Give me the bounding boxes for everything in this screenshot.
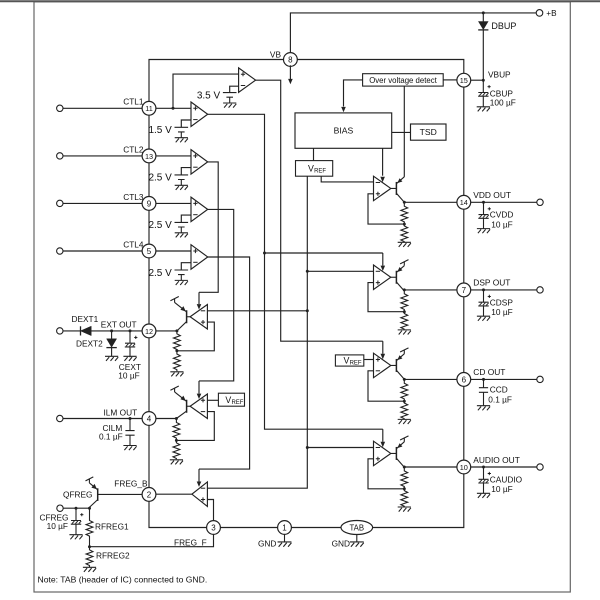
node AUDIO feedback tap [403, 487, 406, 490]
svg-text:V: V [225, 395, 231, 405]
wire CTL3 comparator output bus [199, 209, 234, 380]
svg-text:CCD: CCD [490, 385, 508, 395]
wire BIAS to VDD op-amp arrow [382, 148, 384, 175]
wire ILM OUT external [63, 418, 142, 420]
wire AUDIO output to pin [404, 466, 457, 468]
transistor QFREG [86, 477, 143, 508]
junction CDSP [482, 288, 485, 291]
svg-text:CDSP: CDSP [490, 297, 514, 307]
wire ILM feedback hook [176, 412, 214, 441]
transistor ILM [170, 386, 190, 418]
block BIAS [295, 113, 392, 148]
wire CTL1 bus branch to DSP arrow [265, 252, 383, 254]
pin 14 VDD OUT [457, 195, 471, 209]
node EXT feedback tap [175, 349, 178, 352]
ground VDD divider [398, 242, 411, 247]
wire VREF bus to DSP op-amp [307, 270, 373, 272]
svg-text:FREG_B: FREG_B [114, 479, 148, 489]
svg-text:Note: TAB (header of IC) conne: Note: TAB (header of IC) connected to GN… [38, 575, 208, 585]
battery reference 1.5 V for CTL1 [175, 127, 189, 137]
diode DEXT2 [106, 331, 116, 356]
ground CEXT [123, 356, 136, 361]
terminal AUDIO OUT [537, 464, 543, 470]
pin 13 CTL2 [142, 149, 156, 163]
wire CTL4 comparator output bus [199, 257, 250, 469]
svg-text:10 µF: 10 µF [47, 521, 68, 531]
capacitor CCD [479, 388, 488, 393]
svg-text:QFREG: QFREG [63, 489, 93, 499]
wire TAB ground stub [356, 535, 358, 542]
svg-text:VB: VB [270, 49, 282, 59]
svg-text:0.1 µF: 0.1 µF [99, 432, 123, 442]
terminal CTL4 [57, 248, 63, 254]
svg-text:TAB: TAB [350, 523, 365, 532]
pin 11 CTL1 [142, 101, 156, 115]
ground AUDIO divider [398, 507, 411, 512]
svg-text:CTL2: CTL2 [123, 144, 144, 154]
wire pin 4 to ILM node [156, 418, 176, 420]
junction CEXT [129, 329, 132, 332]
wire CTL2 pin to comparator [156, 155, 191, 157]
svg-text:CD OUT: CD OUT [473, 367, 505, 377]
pin 2 FREG_B [142, 488, 156, 502]
node DSP feedback tap [403, 310, 406, 313]
svg-text:CTL1: CTL1 [123, 97, 144, 107]
resistor AUDIO feedback upper [401, 467, 408, 489]
capacitor CVDD [478, 202, 491, 228]
block VREF main [296, 161, 333, 177]
terminal CTL1 [57, 105, 63, 111]
arrowhead into AUDIO op-amp [381, 442, 386, 447]
wire VDD output to pin [404, 201, 457, 203]
capacitor CILM plates [125, 431, 134, 436]
wire DSP OUT to terminal [471, 289, 537, 291]
wire DSP output to pin [404, 289, 457, 291]
wire CD output to pin [404, 378, 457, 380]
ground CVDD [477, 229, 490, 234]
node CD feedback tap [403, 400, 406, 403]
diode DBUP [478, 13, 488, 80]
svg-text:8: 8 [288, 55, 293, 64]
page border top thick edge [0, 0, 600, 2]
junction VREF bus to EXT [306, 309, 309, 312]
battery reference 2.5 V for CTL3 [175, 222, 189, 232]
ground CD divider [398, 419, 411, 424]
capacitor CBUP [478, 80, 491, 106]
svg-text:REF: REF [314, 169, 326, 175]
svg-text:2: 2 [147, 490, 152, 499]
junction CFREG [75, 507, 78, 510]
resistor RFREG1 [86, 508, 93, 547]
junction VREF bus to DSP [306, 270, 309, 273]
svg-text:AUDIO OUT: AUDIO OUT [473, 455, 520, 465]
comparator CTL4 [191, 245, 208, 270]
svg-text:14: 14 [460, 198, 468, 207]
op-amp EXT [190, 305, 207, 330]
node VDD output [403, 201, 406, 204]
wire CTL2 comparator output bus [199, 162, 218, 292]
wire CD OUT to terminal [471, 378, 537, 380]
svg-text:6: 6 [462, 375, 467, 384]
pin 1 GND [278, 521, 292, 535]
wire FREG plus hook to pin 3 [207, 500, 213, 521]
wire input CTL2 [63, 155, 142, 157]
junction DEXT2 [110, 329, 113, 332]
svg-text:10 µF: 10 µF [118, 371, 139, 381]
svg-text:V: V [343, 356, 349, 366]
block VREF ILM [218, 393, 244, 406]
svg-text:DEXT1: DEXT1 [72, 314, 99, 324]
svg-text:7: 7 [462, 286, 467, 295]
svg-text:VDD OUT: VDD OUT [473, 190, 511, 200]
svg-text:TSD: TSD [420, 127, 437, 137]
ground ILM divider [170, 460, 183, 465]
pin 4 ILM OUT [142, 412, 156, 426]
svg-text:CAUDIO: CAUDIO [490, 474, 523, 484]
ground DEXT2 [105, 356, 118, 361]
wire EXT OUT external [63, 330, 142, 332]
arrowhead into FREG op-amp [197, 482, 202, 487]
net VREF bus [207, 176, 307, 488]
IC package outline [149, 60, 464, 528]
arrowhead into EXT op-amp [197, 304, 202, 309]
node VDD feedback tap [403, 223, 406, 226]
junction CVDD [482, 201, 485, 204]
capacitor CAUDIO [478, 467, 491, 493]
svg-text:DSP OUT: DSP OUT [473, 278, 510, 288]
capacitor CILM [129, 419, 131, 446]
wire +B rail [290, 13, 536, 54]
ground pin 1 [278, 542, 292, 547]
junction CCD [482, 378, 485, 381]
wire VDD OUT to terminal [471, 201, 537, 203]
junction DBUP anode [482, 11, 485, 14]
op-amp regulator AUDIO [374, 441, 391, 466]
ground CFREG [69, 535, 82, 540]
wire CTL1 to 3.5V comparator plus [173, 74, 239, 108]
block Over voltage detect [363, 74, 444, 86]
pin 3 FREG_F [207, 521, 221, 535]
svg-text:REF: REF [350, 361, 362, 367]
svg-text:12: 12 [145, 327, 153, 336]
svg-text:GND: GND [258, 539, 276, 549]
resistor VDD feedback lower [401, 224, 408, 242]
pin TAB [341, 521, 373, 535]
junction CTL1 bus to DSP [263, 252, 266, 255]
pin 6 CD OUT [457, 373, 471, 387]
wire EXT feedback hook [177, 322, 214, 351]
wire input CTL3 [63, 202, 142, 204]
wire CTL3 comparator minus hook [181, 215, 191, 222]
junction VBUP [482, 79, 485, 82]
resistor CD feedback upper [401, 379, 408, 401]
svg-text:1.5 V: 1.5 V [148, 125, 172, 136]
battery reference 3.5 V [223, 93, 237, 103]
ground CAUDIO [477, 493, 490, 498]
junction CTL1 to 3.5V comparator [172, 107, 175, 110]
arrowhead into ILM op-amp [197, 394, 202, 399]
wire DSP feedback hook [368, 283, 404, 312]
resistor RFREG2 [86, 547, 93, 567]
arrowhead into DSP op-amp [381, 266, 386, 271]
ground [175, 185, 188, 190]
wire CTL4 comparator minus hook [181, 263, 191, 270]
comparator CTL2 [191, 150, 208, 175]
resistor VDD feedback upper [401, 202, 408, 224]
pin 15 VBUP [457, 73, 471, 87]
op-amp regulator DSP [374, 265, 391, 290]
transistor pass DSP [391, 260, 409, 291]
ground CCD [477, 406, 490, 411]
op-amp FREG [192, 482, 208, 507]
svg-text:DBUP: DBUP [491, 21, 516, 31]
wire CTL1 comparator minus hook [181, 120, 191, 127]
svg-text:2.5 V: 2.5 V [148, 268, 172, 279]
transistor pass VDD [391, 177, 404, 202]
wire AUDIO feedback hook [368, 459, 404, 489]
svg-text:3: 3 [211, 523, 216, 532]
resistor EXT upper [174, 331, 181, 351]
wire 3.5V comparator output bus [256, 80, 383, 341]
svg-text:1: 1 [282, 523, 287, 532]
ground [175, 138, 188, 143]
battery reference 2.5 V for CTL4 [175, 270, 189, 280]
svg-text:2.5 V: 2.5 V [148, 173, 172, 184]
wire CTL2 comparator minus hook [181, 168, 191, 175]
svg-text:V: V [308, 164, 314, 174]
svg-text:GND: GND [332, 539, 350, 549]
pin 10 AUDIO OUT [457, 460, 471, 474]
wire AUDIO OUT to terminal [471, 466, 537, 468]
node AUDIO output [403, 466, 406, 469]
comparator CTL3 [191, 197, 208, 222]
wire CTL1 comparator output bus [208, 114, 383, 429]
svg-text:10 µF: 10 µF [491, 484, 512, 494]
resistor DSP feedback lower [401, 312, 408, 330]
wire CTL3 pin to comparator [156, 202, 191, 204]
wire CTL1 pin to comparator [156, 107, 191, 109]
terminal EXT OUT [57, 328, 63, 334]
wire CTL4 pin to comparator [156, 250, 191, 252]
svg-text:13: 13 [145, 152, 153, 161]
resistor ILM lower [173, 440, 180, 459]
svg-text:CVDD: CVDD [490, 210, 514, 220]
node CD output [403, 378, 406, 381]
wire input CTL4 [63, 250, 142, 252]
svg-text:10 µF: 10 µF [491, 219, 512, 229]
wire OVD bottom to VDD transistor emitter [403, 86, 405, 177]
battery reference 2.5 V for CTL2 [175, 175, 189, 185]
wire BIAS to TSD [392, 131, 411, 133]
terminal CD OUT [537, 376, 543, 382]
wire pin 12 to EXT node [156, 330, 177, 332]
node RFREG1 top [88, 507, 91, 510]
op-amp ILM [190, 394, 207, 419]
svg-text:4: 4 [147, 414, 152, 423]
svg-text:15: 15 [460, 76, 468, 85]
arrowhead into VDD op-amp [380, 177, 385, 182]
ground RFREG2 [83, 567, 96, 572]
arrowhead into CD op-amp [381, 354, 386, 359]
svg-text:0.1 µF: 0.1 µF [488, 395, 512, 405]
ground CDSP [477, 316, 490, 321]
ground DSP divider [398, 330, 411, 335]
wire pin 1 ground stub [284, 534, 286, 541]
transistor pass AUDIO [391, 436, 409, 467]
svg-text:EXT OUT: EXT OUT [101, 319, 137, 329]
terminal CTL2 [57, 153, 63, 159]
wire VREF ILM to op-amp plus [207, 399, 218, 401]
pin 5 CTL4 [142, 244, 156, 258]
svg-text:ILM OUT: ILM OUT [104, 407, 138, 417]
wire VREF bus to AUDIO op-amp [307, 447, 373, 449]
svg-text:CTL3: CTL3 [123, 192, 144, 202]
transistor pass CD [391, 348, 409, 379]
pin 9 CTL3 [142, 197, 156, 211]
arrowhead into BIAS [341, 107, 346, 112]
svg-text:VBUP: VBUP [488, 70, 511, 80]
ground CBUP [477, 107, 490, 112]
svg-text:DEXT2: DEXT2 [76, 339, 103, 349]
resistor EXT lower [174, 351, 181, 372]
ground [175, 233, 188, 238]
svg-text:10: 10 [460, 463, 468, 472]
terminal DSP OUT [537, 287, 543, 293]
wire FREG op-amp output to pin 2 [156, 493, 192, 495]
pin 8 VB [284, 53, 298, 67]
terminal VDD OUT [537, 199, 543, 205]
op-amp regulator CD [374, 353, 391, 378]
wire VREF to VDD opamp minus [321, 176, 373, 182]
transistor EXT [170, 297, 190, 331]
terminal CFREG [57, 505, 63, 511]
node DSP output [403, 288, 406, 291]
wire 3.5V comparator minus hook [230, 86, 239, 92]
svg-text:RFREG1: RFREG1 [95, 522, 129, 532]
ground [175, 280, 188, 285]
svg-text:FREG_F: FREG_F [174, 537, 207, 547]
capacitor CFREG [71, 508, 84, 534]
svg-text:REF: REF [231, 400, 243, 406]
svg-text:Over voltage detect: Over voltage detect [369, 76, 437, 85]
capacitor CDSP [478, 290, 491, 316]
terminal ILM OUT [57, 415, 63, 421]
comparator 3.5V [239, 68, 256, 93]
wire OVD left branch [344, 80, 363, 107]
svg-text:+B: +B [546, 9, 557, 18]
arrow VB supply into IC [288, 65, 293, 84]
op-amp regulator VDD [374, 176, 391, 201]
node RFREG junction [88, 545, 91, 548]
svg-text:CTL4: CTL4 [123, 239, 144, 249]
junction VREF bus to AUDIO [306, 446, 309, 449]
node EXT internal [175, 329, 178, 332]
comparator CTL1 [191, 102, 208, 127]
wire BIAS to VREF box [313, 148, 315, 160]
wire VREF box to CD op-amp [364, 359, 374, 361]
svg-text:RFREG2: RFREG2 [96, 551, 130, 561]
resistor ILM upper [173, 419, 180, 441]
junction CAUDIO [482, 466, 485, 469]
block TSD [411, 124, 447, 140]
pin 7 DSP OUT [457, 283, 471, 297]
wire CFREG terminal to QFREG [63, 507, 89, 509]
pin 12 EXT OUT [142, 324, 156, 338]
svg-text:9: 9 [147, 199, 152, 208]
diode DEXT1 [81, 326, 92, 335]
resistor DSP feedback upper [401, 290, 408, 312]
wire input CTL1 [63, 107, 142, 109]
node ILM internal [175, 417, 178, 420]
svg-text:5: 5 [147, 247, 152, 256]
svg-text:2.5 V: 2.5 V [148, 220, 172, 231]
svg-text:10 µF: 10 µF [491, 307, 512, 317]
svg-text:BIAS: BIAS [334, 126, 354, 136]
svg-text:3.5 V: 3.5 V [197, 90, 221, 101]
block VREF CD [335, 355, 363, 367]
capacitor CEXT [125, 331, 138, 357]
ground CILM [123, 446, 136, 451]
wire CD feedback hook [368, 371, 404, 401]
resistor CD feedback lower [401, 401, 408, 419]
svg-text:100 µF: 100 µF [490, 97, 516, 107]
ground EXT divider [170, 372, 183, 377]
junction CILM [129, 417, 132, 420]
terminal +B [536, 10, 543, 17]
wire VBUP to pin 15 [471, 79, 484, 81]
wire VDD feedback hook [368, 194, 404, 224]
ground [223, 103, 236, 108]
resistor AUDIO feedback lower [401, 489, 408, 507]
wire EXT op-amp minus to VREF bus [207, 310, 307, 312]
node ILM feedback tap [175, 439, 178, 442]
wire OVD to pin 15 [443, 79, 457, 81]
svg-text:11: 11 [145, 104, 153, 113]
ground TAB [350, 542, 364, 547]
terminal CTL3 [57, 200, 63, 206]
wire RFREG junction to pin 3 [90, 534, 214, 546]
